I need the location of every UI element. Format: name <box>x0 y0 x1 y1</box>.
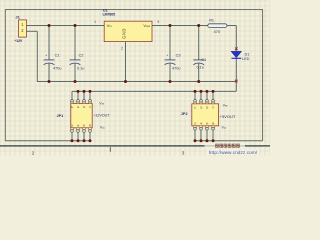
junction JP1 pin8 bus <box>89 139 92 142</box>
junction C3 bottom <box>169 80 172 83</box>
wire down to LED anode <box>235 26 237 52</box>
svg-text:2: 2 <box>121 47 123 51</box>
wire C1 bottom <box>48 63 50 81</box>
junction U1 GND <box>124 80 127 83</box>
wire JP1 bottom pin 2 drop <box>71 132 73 140</box>
wire J1 pin2 down to ground rail <box>36 31 38 81</box>
svg-text:7‹: 7‹ <box>89 105 91 109</box>
connector J1 body <box>19 20 27 37</box>
svg-text:470u: 470u <box>172 66 180 70</box>
JP2 top pin 7 pad <box>212 102 215 104</box>
wire JP2 bottom pin 2 drop <box>194 130 196 140</box>
svg-text:3: 3 <box>157 20 159 24</box>
wire C1 top <box>48 26 50 60</box>
junction JP1 pin3 bus <box>77 90 80 93</box>
sheet border left line <box>4 9 6 140</box>
header JP1 body <box>71 104 92 128</box>
no-ERC marker at LED cathode / ground node <box>235 80 238 83</box>
svg-text:Vout: Vout <box>143 23 150 28</box>
svg-text:C4: C4 <box>201 58 206 62</box>
wire LED cathode down to ground rail <box>235 58 237 81</box>
wire JP2 top pin 5 drop <box>206 91 208 99</box>
wire JP2 top pin 3 drop <box>200 91 202 99</box>
JP2 bottom pin 2 pad <box>194 126 197 128</box>
sheet zone tick bottom <box>109 147 111 152</box>
wire +12V rail: J1 pin1 to U1 Vin <box>27 25 105 27</box>
svg-text:4‹: 4‹ <box>200 121 202 125</box>
wire JP1 top pin 7 drop <box>89 91 91 99</box>
wire JP2 bottom pin 4 drop <box>200 130 202 140</box>
header JP2 body <box>192 104 219 126</box>
junction JP2 pin6 bus <box>206 139 209 142</box>
wire C4 top <box>198 26 200 60</box>
svg-text:D1: D1 <box>245 52 250 56</box>
svg-text:2‹: 2‹ <box>194 121 196 125</box>
junction JP1 pin4 bus <box>77 139 80 142</box>
wire C3 bottom <box>169 63 171 81</box>
svg-text:Vss: Vss <box>99 101 104 105</box>
junction C4 top <box>197 24 200 27</box>
wire C4 bottom <box>198 63 200 81</box>
svg-text:C3: C3 <box>176 53 181 57</box>
svg-text:C2: C2 <box>79 54 84 58</box>
svg-text:8‹: 8‹ <box>212 121 214 125</box>
junction JP2 pin4 bus <box>200 139 203 142</box>
wire JP1 bottom bus (+12V) <box>5 140 90 142</box>
junction C1 bottom <box>48 80 51 83</box>
wire C3 top <box>169 26 171 60</box>
svg-text:0.1u: 0.1u <box>197 66 204 70</box>
sheet border top line <box>5 8 262 10</box>
svg-text:JP1: JP1 <box>57 114 64 118</box>
wire JP1 bottom pin 4 drop <box>77 132 79 140</box>
junction JP1 pin7 bus <box>89 90 92 93</box>
svg-text:+5VOUT: +5VOUT <box>220 114 236 119</box>
svg-text:4‹: 4‹ <box>77 123 79 127</box>
JP1 bottom pin 2 pad <box>71 128 74 130</box>
wire JP1 bottom pin 8 drop <box>89 132 91 140</box>
wire JP2 bottom pin 6 drop <box>206 130 208 140</box>
junction C4 bottom <box>197 80 200 83</box>
JP2 top pin 5 pad <box>206 102 209 104</box>
wire JP2 bottom pin 8 drop <box>212 130 214 140</box>
svg-text:1‹: 1‹ <box>71 105 73 109</box>
junction C1 top <box>48 24 51 27</box>
JP1 top pin 7 pad <box>89 102 92 104</box>
wire ground rail <box>37 81 236 83</box>
junction C2 bottom <box>74 80 77 83</box>
junction JP1 pin2 bus <box>71 139 74 142</box>
wire ground bus above JP1/JP2 <box>72 90 236 92</box>
svg-text:6‹: 6‹ <box>206 121 208 125</box>
junction JP2 pin8 bus <box>212 139 215 142</box>
wire JP1 top pin 1 drop <box>71 91 73 99</box>
svg-text:2: 2 <box>32 150 35 155</box>
wire JP2 bottom bus (+5V) <box>195 140 263 142</box>
wire JP1 bottom pin 6 drop <box>83 132 85 140</box>
svg-text:5‹: 5‹ <box>206 105 208 109</box>
capacitor C3 symbol <box>165 60 176 65</box>
svg-text:Vss: Vss <box>223 103 228 107</box>
sheet border right line <box>262 9 264 140</box>
svg-text:0.1u: 0.1u <box>77 66 84 70</box>
sheet border bottom line <box>0 145 270 147</box>
wire +5V rail: U1 Vout to R1 <box>152 25 208 27</box>
wire U1 GND pin down to ground rail <box>125 42 127 82</box>
svg-text:+: + <box>45 54 47 58</box>
svg-text:JP2: JP2 <box>181 112 188 116</box>
svg-text:470: 470 <box>214 30 220 34</box>
junction C3 top <box>169 24 172 27</box>
svg-text:http://www.cndzz.com/: http://www.cndzz.com/ <box>209 150 258 155</box>
svg-text:LED: LED <box>242 57 250 61</box>
capacitor C4 symbol <box>193 60 204 65</box>
wire R1 right to corner <box>227 25 236 27</box>
svg-text:470u: 470u <box>53 66 61 70</box>
svg-text:8‹: 8‹ <box>89 123 91 127</box>
svg-text:+: + <box>166 54 168 58</box>
svg-text:1: 1 <box>94 20 96 24</box>
JP2 bottom pin 4 pad <box>200 126 203 128</box>
JP1 top pin 1 pad <box>71 102 74 104</box>
svg-text:6‹: 6‹ <box>83 123 85 127</box>
JP1 top pin 5 pad <box>83 102 86 104</box>
JP2 bottom pin 6 pad <box>206 126 209 128</box>
svg-text:Vcc: Vcc <box>100 126 105 130</box>
svg-text:5‹: 5‹ <box>83 105 85 109</box>
svg-text:U1: U1 <box>103 7 109 12</box>
junction JP1 pin5 bus <box>83 90 86 93</box>
capacitor C2 symbol <box>70 60 81 65</box>
resistor R1 body <box>208 24 227 28</box>
svg-text:3: 3 <box>182 150 185 155</box>
svg-text:GND: GND <box>122 28 127 39</box>
diode D1 LED symbol <box>231 51 242 58</box>
junction C2 top <box>74 24 77 27</box>
junction JP2 pin1 bus <box>194 90 197 93</box>
wire JP2 top pin 1 drop <box>194 91 196 99</box>
junction JP2 pin3 bus <box>200 90 203 93</box>
svg-text:Vcc: Vcc <box>222 126 227 130</box>
svg-text:1‹: 1‹ <box>194 105 196 109</box>
regulator U1 body <box>104 21 152 41</box>
no-ERC marker at LED anode node <box>235 47 238 50</box>
JP1 bottom pin 8 pad <box>89 128 92 130</box>
svg-text:+12VOUT: +12VOUT <box>93 114 110 118</box>
wire JP1 top pin 3 drop <box>77 91 79 99</box>
wire C2 bottom <box>74 63 76 81</box>
wire J1 pin2 horizontal <box>27 30 38 32</box>
wire JP1 top pin 5 drop <box>83 91 85 99</box>
watermark chinese text (drawn glyph blocks) <box>216 144 240 147</box>
svg-text:R1: R1 <box>209 19 214 23</box>
svg-text:2‹: 2‹ <box>71 123 73 127</box>
JP2 bottom pin 8 pad <box>212 126 215 128</box>
JP1 bottom pin 6 pad <box>83 128 86 130</box>
JP1 bottom pin 4 pad <box>77 128 80 130</box>
svg-text:3‹: 3‹ <box>77 105 79 109</box>
JP1 top pin 3 pad <box>77 102 80 104</box>
svg-text:LM7805: LM7805 <box>103 13 115 17</box>
svg-text:3‹: 3‹ <box>200 105 202 109</box>
watermark background halo <box>205 143 246 149</box>
svg-text:Vin: Vin <box>107 23 112 28</box>
svg-text:7‹: 7‹ <box>212 105 214 109</box>
junction JP2 pin7 bus <box>212 90 215 93</box>
svg-text:+12V: +12V <box>14 39 23 43</box>
JP2 top pin 1 pad <box>194 102 197 104</box>
wire ground bus riser to ground rail <box>235 82 237 92</box>
JP2 top pin 3 pad <box>200 102 203 104</box>
wire C2 top <box>74 26 76 60</box>
capacitor C1 symbol <box>44 60 55 65</box>
junction JP1 pin6 bus <box>83 139 86 142</box>
svg-text:C1: C1 <box>55 54 60 58</box>
junction JP2 pin2 bus <box>194 139 197 142</box>
junction JP2 pin5 bus <box>206 90 209 93</box>
wire JP2 top pin 7 drop <box>212 91 214 99</box>
svg-text:J1: J1 <box>15 14 20 19</box>
